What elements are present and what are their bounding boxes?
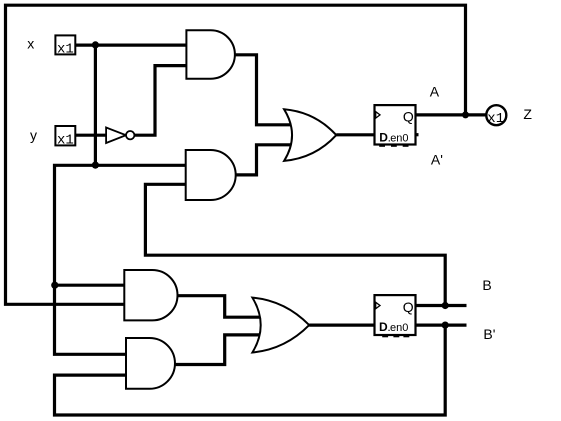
flip-flop U5 (A) bbox=[375, 105, 416, 147]
svg-text:x1: x1 bbox=[57, 41, 74, 57]
wire flip-flop U6 Q output to B stub bbox=[416, 304, 467, 307]
wire flip-flop U5 Q' stub (A') bbox=[416, 133, 419, 136]
input pin x (x1 box) bbox=[55, 35, 75, 57]
wire y input to inverter bbox=[75, 134, 106, 137]
wire AND4 output to OR2 lower input bbox=[175, 335, 261, 365]
inverter U9 (NOT gate on y) bbox=[106, 128, 134, 144]
wire flip-flop U5 Q output to Z pin bbox=[416, 113, 488, 116]
junction node x lower bbox=[92, 162, 99, 169]
wire AND3 output to OR2 upper input bbox=[178, 296, 262, 318]
output pin Z (x1 circle) bbox=[486, 105, 506, 127]
svg-text:Q: Q bbox=[403, 299, 414, 315]
junction node B' bbox=[442, 322, 449, 329]
wire net B' feedback: down, along bottom, up to AND4 lower input bbox=[55, 325, 446, 415]
wire inverter output to AND1 lower input bbox=[135, 66, 187, 136]
wire OR1 output to flip-flop U5 D input bbox=[336, 133, 374, 136]
and gate U4 (bottom, inputs x and B') bbox=[126, 338, 175, 389]
svg-text:B': B' bbox=[483, 326, 495, 342]
svg-text:x1: x1 bbox=[487, 111, 504, 127]
junction node A/Z bbox=[462, 111, 469, 118]
svg-text:en0: en0 bbox=[390, 133, 408, 145]
wire x branch to AND3 upper input bbox=[55, 284, 125, 287]
wire x input to AND1 upper input bbox=[75, 43, 186, 46]
flip-flop U6 (B) bbox=[375, 295, 416, 337]
input pin y (x1 box) bbox=[55, 126, 75, 148]
svg-text:Q: Q bbox=[403, 109, 414, 125]
svg-text:x1: x1 bbox=[57, 132, 74, 148]
wire x vertical drop from junction bbox=[94, 45, 97, 165]
wire OR2 output to flip-flop U6 D input bbox=[309, 324, 374, 327]
junction node B bbox=[442, 302, 449, 309]
junction node x at AND3 branch bbox=[51, 282, 58, 289]
wire x branch: left corner then right to AND2 upper input, and down to AND4 upper input bbox=[55, 165, 186, 354]
wire flip-flop U6 Q' output to B' stub bbox=[416, 324, 467, 327]
or gate U8 (bottom) bbox=[252, 298, 309, 353]
and gate U3 (third, inputs x and Z) bbox=[124, 270, 177, 320]
wire AND1 output to OR1 upper input bbox=[235, 55, 292, 125]
svg-text:y: y bbox=[30, 127, 37, 143]
or gate U7 (top) bbox=[284, 109, 336, 161]
svg-text:Z: Z bbox=[523, 106, 532, 122]
svg-text:A: A bbox=[430, 83, 440, 99]
svg-text:B: B bbox=[482, 277, 491, 293]
and gate U2 (second, inputs x and B) bbox=[186, 150, 236, 200]
wire net Z feedback: A.Q junction up over top border, down left border, to AND3 lower input bbox=[6, 5, 466, 304]
junction node x at input bbox=[92, 41, 99, 48]
wire AND2 output to OR1 lower input bbox=[236, 145, 292, 175]
svg-text:en0: en0 bbox=[390, 322, 408, 334]
wire net B feedback: B junction up and left to AND2 lower input bbox=[145, 184, 445, 305]
svg-text:A': A' bbox=[431, 151, 443, 167]
and gate U1 (top, inputs x and not-y) bbox=[186, 30, 234, 78]
svg-text:x: x bbox=[27, 35, 34, 51]
